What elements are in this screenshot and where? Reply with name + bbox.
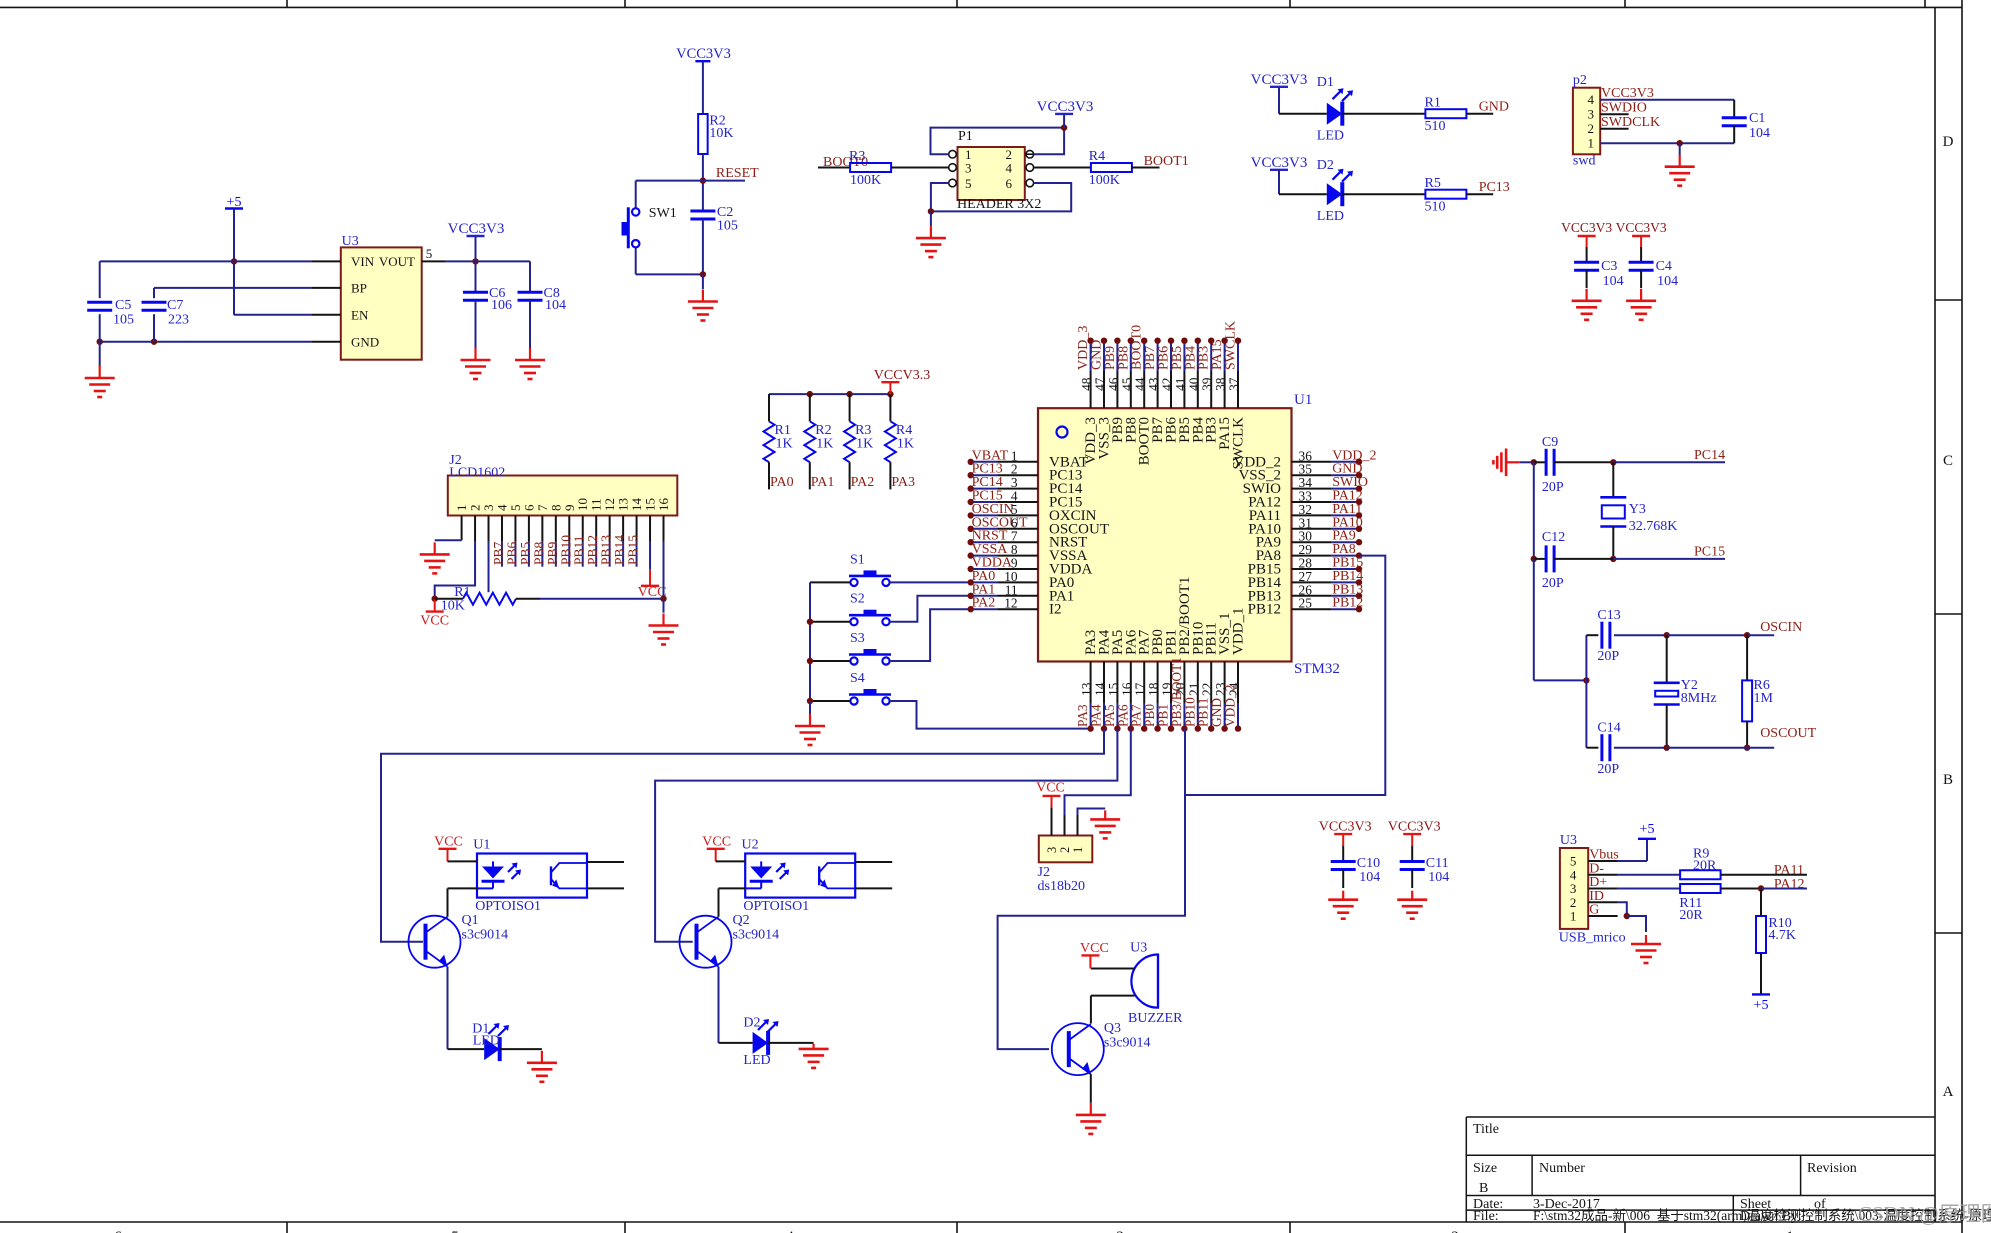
svg-text:1: 1 — [1071, 847, 1085, 853]
svg-text:PC14: PC14 — [1694, 448, 1725, 463]
svg-text:File:: File: — [1473, 1209, 1499, 1224]
svg-text:105: 105 — [717, 219, 738, 234]
svg-text:s3c9014: s3c9014 — [462, 928, 509, 943]
svg-text:6: 6 — [114, 1229, 122, 1233]
svg-text:1: 1 — [1588, 136, 1595, 151]
svg-text:Size: Size — [1473, 1161, 1497, 1176]
svg-text:20P: 20P — [1597, 649, 1619, 664]
svg-text:BOOT1: BOOT1 — [1144, 154, 1189, 169]
svg-text:S1: S1 — [850, 552, 865, 567]
svg-text:PA2: PA2 — [851, 475, 875, 490]
svg-text:1K: 1K — [816, 437, 833, 452]
svg-text:Y3: Y3 — [1629, 502, 1646, 517]
svg-text:PC13: PC13 — [1479, 180, 1510, 195]
svg-text:VCC: VCC — [702, 835, 731, 850]
svg-text:PB12: PB12 — [1332, 596, 1363, 611]
svg-text:U2: U2 — [742, 838, 759, 853]
svg-text:104: 104 — [545, 298, 566, 313]
svg-text:1K: 1K — [776, 437, 793, 452]
svg-text:VCC: VCC — [434, 835, 463, 850]
svg-text:100K: 100K — [1089, 173, 1120, 188]
svg-text:Title: Title — [1473, 1122, 1499, 1137]
svg-text:1K: 1K — [897, 437, 914, 452]
svg-text:3: 3 — [1570, 881, 1577, 896]
svg-text:VDD_2: VDD_2 — [1223, 685, 1238, 727]
svg-text:J2: J2 — [1038, 865, 1050, 880]
svg-text:104: 104 — [1749, 126, 1770, 141]
svg-text:GND: GND — [1479, 100, 1509, 115]
svg-text:100K: 100K — [850, 173, 881, 188]
svg-text:+5: +5 — [1640, 822, 1655, 837]
svg-text:1M: 1M — [1754, 691, 1774, 706]
svg-text:D+: D+ — [1589, 875, 1607, 890]
svg-text:105: 105 — [113, 313, 134, 328]
svg-text:EN: EN — [351, 308, 369, 323]
svg-text:104: 104 — [1657, 274, 1678, 289]
svg-text:C12: C12 — [1542, 530, 1565, 545]
svg-text:Q1: Q1 — [462, 913, 479, 928]
svg-text:3: 3 — [1588, 107, 1595, 122]
svg-text:p2: p2 — [1573, 73, 1587, 88]
svg-text:LED: LED — [473, 1034, 500, 1049]
svg-text:1K: 1K — [856, 437, 873, 452]
svg-text:104: 104 — [1359, 870, 1380, 885]
svg-text:U1: U1 — [1294, 392, 1312, 408]
svg-text:20P: 20P — [1597, 762, 1619, 777]
svg-text:U3: U3 — [1560, 833, 1577, 848]
svg-text:S4: S4 — [850, 671, 865, 686]
svg-text:10K: 10K — [709, 126, 733, 141]
svg-text:D: D — [1943, 134, 1954, 150]
svg-text:VCC3V3: VCC3V3 — [1037, 99, 1094, 115]
svg-text:D-: D- — [1589, 861, 1604, 876]
svg-text:SWCLK: SWCLK — [1231, 417, 1247, 470]
svg-text:VCC3V3: VCC3V3 — [1319, 820, 1372, 835]
svg-text:VIN: VIN — [351, 254, 375, 269]
svg-text:B: B — [1943, 772, 1953, 788]
svg-text:VCC3V3: VCC3V3 — [1251, 72, 1308, 88]
svg-text:C7: C7 — [167, 298, 183, 313]
svg-text:D1: D1 — [1317, 75, 1334, 90]
svg-text:2: 2 — [1588, 121, 1595, 136]
svg-text:C14: C14 — [1597, 721, 1620, 736]
svg-text:PA12: PA12 — [1774, 877, 1805, 892]
svg-text:PA1: PA1 — [811, 475, 835, 490]
svg-text:D2: D2 — [743, 1015, 760, 1030]
svg-text:C4: C4 — [1656, 259, 1672, 274]
svg-text:LED: LED — [743, 1053, 770, 1068]
svg-text:PA3: PA3 — [891, 475, 915, 490]
svg-text:BUZZER: BUZZER — [1128, 1011, 1183, 1026]
svg-text:12: 12 — [1004, 596, 1017, 611]
svg-text:VCC3V3: VCC3V3 — [1388, 820, 1441, 835]
svg-text:5: 5 — [451, 1229, 459, 1233]
svg-text:C10: C10 — [1357, 856, 1380, 871]
svg-text:Q3: Q3 — [1104, 1021, 1121, 1036]
svg-text:LED: LED — [1317, 209, 1344, 224]
svg-text:8MHz: 8MHz — [1681, 691, 1717, 706]
svg-text:B: B — [1479, 1181, 1488, 1196]
svg-text:20P: 20P — [1542, 480, 1564, 495]
svg-text:5: 5 — [1570, 854, 1577, 869]
svg-text:U3: U3 — [1130, 941, 1147, 956]
svg-text:I2: I2 — [1049, 602, 1062, 618]
svg-text:223: 223 — [168, 313, 189, 328]
svg-text:5: 5 — [965, 176, 972, 191]
svg-text:4: 4 — [786, 1229, 794, 1233]
svg-text:P1: P1 — [958, 129, 973, 144]
svg-text:A: A — [1943, 1084, 1954, 1100]
svg-text:GND: GND — [351, 335, 379, 350]
svg-text:37: 37 — [1227, 377, 1242, 391]
svg-text:BP: BP — [351, 281, 367, 296]
svg-text:4: 4 — [1588, 92, 1595, 107]
svg-text:s3c9014: s3c9014 — [1104, 1036, 1151, 1051]
svg-text:U1: U1 — [473, 838, 490, 853]
svg-text:OSCOUT: OSCOUT — [1760, 726, 1816, 741]
svg-text:SWDIO: SWDIO — [1601, 101, 1647, 116]
svg-text:ds18b20: ds18b20 — [1038, 879, 1085, 894]
svg-text:CSDN @原理图: CSDN @原理图 — [1858, 1202, 1991, 1226]
svg-text:VCCV3.3: VCCV3.3 — [874, 368, 930, 383]
svg-text:SWDCLK: SWDCLK — [1601, 115, 1660, 130]
svg-text:3: 3 — [1045, 847, 1059, 853]
svg-text:PA11: PA11 — [1774, 863, 1804, 878]
svg-text:SWCLK: SWCLK — [1224, 321, 1239, 370]
svg-text:RESET: RESET — [716, 166, 759, 181]
svg-text:2: 2 — [1058, 847, 1072, 853]
svg-text:OPTOISO1: OPTOISO1 — [743, 899, 809, 914]
svg-text:C5: C5 — [115, 298, 131, 313]
svg-text:R1: R1 — [1425, 96, 1441, 111]
svg-text:C: C — [1943, 453, 1953, 469]
svg-text:1: 1 — [1786, 1229, 1794, 1233]
svg-text:VCC3V3: VCC3V3 — [1561, 220, 1612, 235]
svg-text:VOUT: VOUT — [379, 254, 415, 269]
svg-text:2: 2 — [1451, 1229, 1459, 1233]
svg-text:C1: C1 — [1749, 111, 1765, 126]
svg-text:4: 4 — [1570, 867, 1577, 882]
svg-text:S2: S2 — [850, 592, 865, 607]
svg-text:s3c9014: s3c9014 — [733, 928, 780, 943]
svg-text:S3: S3 — [850, 631, 865, 646]
svg-text:VCC3V3: VCC3V3 — [448, 221, 505, 237]
svg-text:1: 1 — [1570, 909, 1577, 924]
svg-text:510: 510 — [1425, 119, 1446, 134]
svg-text:VDD_1: VDD_1 — [1231, 608, 1247, 656]
svg-text:16: 16 — [656, 498, 671, 512]
svg-text:ID: ID — [1589, 889, 1604, 904]
svg-text:R4: R4 — [1089, 149, 1105, 164]
svg-text:LED: LED — [1317, 129, 1344, 144]
svg-text:U3: U3 — [342, 234, 359, 249]
svg-text:20P: 20P — [1542, 576, 1564, 591]
svg-text:Revision: Revision — [1807, 1161, 1857, 1176]
svg-text:C9: C9 — [1542, 435, 1558, 450]
svg-text:32.768K: 32.768K — [1629, 519, 1678, 534]
svg-text:20R: 20R — [1679, 908, 1703, 923]
svg-text:D2: D2 — [1317, 158, 1334, 173]
svg-text:PB12: PB12 — [1248, 602, 1281, 618]
svg-text:PA2: PA2 — [972, 596, 996, 611]
svg-text:20R: 20R — [1693, 859, 1717, 874]
svg-text:VCC: VCC — [420, 614, 449, 629]
svg-text:R3: R3 — [849, 149, 865, 164]
svg-text:OPTOISO1: OPTOISO1 — [475, 899, 541, 914]
svg-text:Q2: Q2 — [733, 913, 750, 928]
svg-text:2: 2 — [1570, 895, 1577, 910]
svg-text:Vbus: Vbus — [1589, 848, 1619, 863]
svg-text:C3: C3 — [1601, 259, 1617, 274]
svg-text:6: 6 — [1006, 176, 1013, 191]
svg-text:4.7K: 4.7K — [1768, 928, 1796, 943]
svg-text:PB15: PB15 — [626, 535, 641, 565]
svg-text:4: 4 — [1006, 161, 1013, 176]
svg-text:Number: Number — [1539, 1161, 1585, 1176]
svg-text:VCC3V3: VCC3V3 — [1616, 220, 1667, 235]
svg-text:VCC3V3: VCC3V3 — [1601, 86, 1654, 101]
svg-text:R5: R5 — [1425, 176, 1441, 191]
svg-text:5: 5 — [426, 246, 433, 261]
svg-text:+5: +5 — [1754, 998, 1769, 1013]
svg-text:swd: swd — [1573, 154, 1596, 169]
svg-text:510: 510 — [1425, 200, 1446, 215]
svg-text:VCC: VCC — [1036, 781, 1065, 796]
svg-text:HEADER 3X2: HEADER 3X2 — [957, 197, 1041, 212]
svg-text:25: 25 — [1299, 596, 1313, 611]
svg-text:OSCIN: OSCIN — [1760, 620, 1802, 635]
svg-text:PC15: PC15 — [1694, 545, 1725, 560]
svg-text:LCD1602: LCD1602 — [449, 466, 505, 481]
svg-text:104: 104 — [1603, 274, 1624, 289]
svg-text:3: 3 — [1116, 1229, 1124, 1233]
svg-text:C11: C11 — [1426, 856, 1449, 871]
svg-text:104: 104 — [1428, 870, 1449, 885]
svg-text:VCC3V3: VCC3V3 — [676, 46, 731, 62]
svg-text:G: G — [1589, 903, 1599, 918]
svg-text:STM32: STM32 — [1294, 661, 1340, 677]
svg-text:PA0: PA0 — [770, 475, 794, 490]
svg-text:USB_mrico: USB_mrico — [1559, 931, 1626, 946]
svg-text:SW1: SW1 — [649, 206, 677, 221]
svg-text:C13: C13 — [1597, 608, 1620, 623]
svg-text:106: 106 — [491, 298, 512, 313]
svg-text:10K: 10K — [441, 599, 465, 614]
svg-text:3: 3 — [965, 161, 972, 176]
svg-text:VCC: VCC — [1080, 941, 1109, 956]
